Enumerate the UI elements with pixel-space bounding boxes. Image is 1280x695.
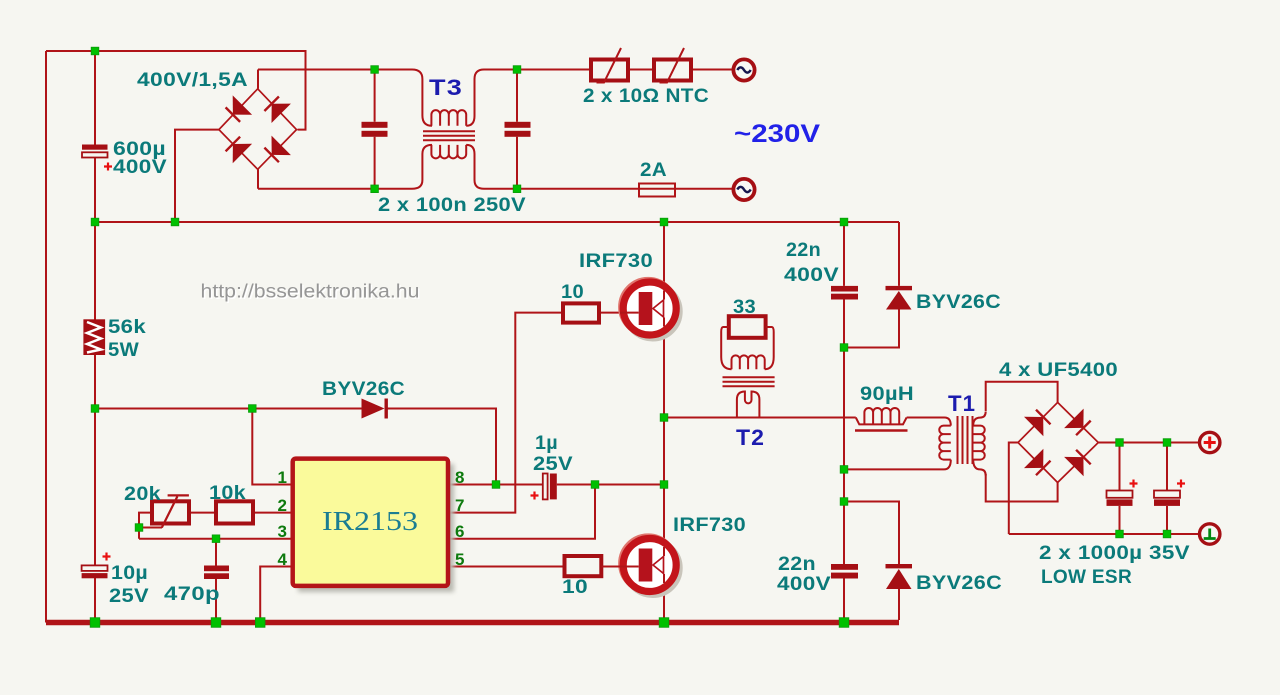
wire HV+ bus2 y=222 (95, 221, 899, 223)
svg-text:400V/1,5A: 400V/1,5A (137, 70, 248, 91)
resistor 10 top gate (563, 303, 599, 322)
svg-text:6: 6 (455, 522, 464, 541)
wire pin7 riser to top gate resistor (448, 313, 563, 513)
wire pin3 row (139, 538, 293, 540)
X capacitor 100n #2 (505, 122, 531, 137)
wire T1 secondary return to x=844 (844, 468, 944, 470)
wire pin1 (252, 409, 293, 485)
input bridge rectifier 400V/1.5A (219, 89, 297, 170)
svg-text:IRF730: IRF730 (579, 251, 653, 272)
wire lower snubber diode branch (844, 502, 899, 621)
svg-text:400V: 400V (113, 157, 167, 178)
junction gnd bus x844 (839, 618, 849, 628)
wire top gate resistor to MOSFET (599, 312, 620, 314)
wire T1 to output bridge top (986, 382, 1058, 411)
junction gnd bus x260 (255, 618, 265, 628)
junction vcc x95 (91, 405, 99, 413)
svg-text:10: 10 (562, 577, 588, 598)
X capacitor 100n #1 (362, 122, 388, 137)
wire half-bridge vertical x=664 (663, 222, 665, 623)
NTC thermistor 2 (654, 48, 691, 83)
wire output + rail (1098, 442, 1199, 444)
svg-text:10: 10 (561, 282, 584, 303)
junction snubber top return (840, 344, 848, 352)
wire trimmer wiper tie (139, 528, 162, 539)
svg-text:1µ: 1µ (535, 433, 558, 454)
junction out+ cap1 (1116, 439, 1124, 447)
junction out+ cap2 (1163, 439, 1171, 447)
output capacitor 1000u #1 (1107, 491, 1133, 506)
junction bus2 x95 (91, 218, 99, 226)
junction bus2 x844 (840, 218, 848, 226)
svg-text:400V: 400V (777, 574, 831, 595)
svg-text:2 x 1000µ 35V: 2 x 1000µ 35V (1039, 543, 1190, 564)
svg-text:10µ: 10µ (111, 563, 148, 584)
svg-text:BYV26C: BYV26C (916, 573, 1002, 594)
junction Xcap2 top (513, 66, 521, 74)
junction VS bootstrap (492, 481, 500, 489)
svg-text:470p: 470p (164, 584, 220, 605)
svg-text:2 x 100n 250V: 2 x 100n 250V (378, 195, 526, 216)
junction T1 return (840, 466, 848, 474)
capacitor 10u 25V (82, 565, 108, 578)
junction gnd bus x95 (90, 618, 100, 628)
wire pin5 to lower gate resistor (448, 566, 565, 568)
svg-text:LOW ESR: LOW ESR (1041, 567, 1132, 588)
svg-text:22n: 22n (786, 240, 821, 261)
capacitor 22n 400V bottom (831, 564, 858, 579)
wire output minus rail (1009, 443, 1199, 535)
ground bus (thick) (46, 620, 899, 626)
svg-text:8: 8 (455, 468, 464, 487)
wire 470p column (215, 539, 217, 621)
wire X-cap2 column x=517 (516, 70, 518, 189)
capacitor 600u 400V (82, 145, 108, 158)
terminal ground output (1200, 524, 1220, 544)
wire upper snubber diode branch x=899 (844, 222, 899, 348)
wire pin6 riser to VS row (448, 485, 595, 539)
svg-text:2A: 2A (640, 160, 667, 181)
svg-text:5: 5 (455, 550, 464, 569)
svg-text:T2: T2 (736, 425, 765, 450)
junction pin3 470p (212, 535, 220, 543)
wire T1 to output bridge bottom (986, 474, 1058, 502)
inductor 90uH (855, 408, 908, 431)
svg-text:5W: 5W (108, 340, 139, 361)
junction out- cap2 (1163, 530, 1171, 538)
output capacitor 1000u #2 (1154, 491, 1180, 506)
diode BYV26C bottom (886, 564, 913, 589)
wire lower gate resistor to MOSFET (601, 566, 620, 568)
wire pin4 to ground bus (260, 567, 293, 621)
NTC thermistor 1 (591, 48, 628, 83)
junction bus2 x175 (171, 218, 179, 226)
svg-text:10k: 10k (209, 483, 246, 504)
wire output cap stems (1120, 443, 1168, 535)
svg-text:IRF730: IRF730 (673, 515, 746, 536)
wire left tall rail (45, 51, 47, 623)
wire pin2 through 10k and 20k (139, 513, 293, 528)
wire input bridge bottom AC to T3, fuse row y=188.8 (258, 169, 734, 189)
IC IR2153 body (293, 459, 448, 586)
plus mark 600u (104, 163, 112, 171)
AC terminal N (733, 179, 754, 200)
svg-text:22n: 22n (778, 554, 816, 575)
junction trimmer tie (135, 524, 143, 532)
wire 90uH to T1 (907, 417, 945, 419)
AC terminal L (733, 59, 754, 80)
junction Xcap2 bottom (513, 185, 521, 193)
junction gnd bus x216 (211, 618, 221, 628)
svg-text:20k: 20k (124, 484, 161, 505)
junction VS pin6 (591, 481, 599, 489)
svg-text:2 x 10Ω NTC: 2 x 10Ω NTC (583, 86, 709, 107)
junction VS midpoint (660, 481, 668, 489)
capacitor 1u 25V (543, 474, 557, 500)
MOSFET IRF730 top (620, 281, 679, 339)
junction Xcap1 top (371, 66, 379, 74)
fuse 2A (639, 184, 675, 197)
junction bus2 x664 (660, 218, 668, 226)
wire 600u / 56k / 10u column at x=95 (94, 51, 96, 623)
plus mark 1u (531, 492, 539, 500)
svg-text:T3: T3 (429, 75, 463, 100)
svg-text:33: 33 (733, 297, 756, 318)
resistor 10k (216, 501, 253, 523)
svg-text:BYV26C: BYV26C (322, 379, 405, 400)
svg-text:7: 7 (455, 496, 464, 515)
svg-text:4 x UF5400: 4 x UF5400 (999, 360, 1118, 381)
resistor 10 bottom gate (565, 556, 602, 576)
wire VCC node y=408.5 and bootstrap diode run (95, 409, 496, 485)
wire top bus from left corner to input bridge + corner (46, 51, 306, 130)
IC IR2153 shadow (298, 464, 454, 592)
svg-text:~230V: ~230V (734, 120, 820, 148)
output bridge rectifier 4 x UF5400 (1018, 402, 1098, 482)
diode BYV26C bootstrap (362, 399, 388, 419)
wire X-cap1 column x=374.6 (374, 70, 376, 189)
junction vcc x252 (249, 405, 257, 413)
svg-text:1: 1 (278, 468, 287, 487)
capacitor 22n 400V top (831, 286, 858, 300)
svg-text:BYV26C: BYV26C (916, 292, 1001, 313)
junction Xcap1 bottom (371, 185, 379, 193)
junction midpoint T2 (660, 414, 668, 422)
junction 600u top (91, 47, 99, 55)
svg-text:http://bsselektronika.hu: http://bsselektronika.hu (201, 281, 420, 303)
svg-text:4: 4 (278, 550, 288, 569)
transformer T3 common-mode choke (412, 70, 484, 189)
capacitor 470p (204, 566, 229, 580)
plus mark cap1 (1130, 480, 1138, 488)
diode BYV26C top (886, 286, 913, 310)
MOSFET IRF730 bottom (601, 537, 679, 595)
junction snubber bottom branch (840, 498, 848, 506)
transformer T1 (939, 412, 985, 476)
wire input bridge top AC to T3 and NTC row y=69.5 (258, 70, 734, 89)
wire midpoint row to 90uH (664, 417, 856, 419)
wire input bridge minus corner to bus2 (175, 130, 219, 222)
plus mark cap2 (1177, 480, 1185, 488)
terminal plus output (1200, 432, 1220, 452)
resistor 56k 5W (83, 319, 105, 355)
plus mark 10u (103, 553, 111, 561)
svg-text:3: 3 (278, 522, 287, 541)
trimmer 20k (152, 495, 189, 527)
transformer T2 with 33 ohm resistor (721, 316, 774, 417)
svg-text:IR2153: IR2153 (322, 506, 418, 536)
wire VS row pin8 to midpoint (448, 484, 664, 486)
junction gnd bus x664 (659, 618, 669, 628)
svg-text:25V: 25V (533, 454, 573, 475)
svg-text:400V: 400V (784, 265, 839, 286)
svg-text:90µH: 90µH (860, 384, 914, 405)
svg-text:56k: 56k (108, 317, 146, 338)
junction out- cap1 (1116, 530, 1124, 538)
svg-text:25V: 25V (109, 586, 149, 607)
svg-text:T1: T1 (948, 391, 976, 416)
svg-text:2: 2 (278, 496, 287, 515)
wire x=844 column (22n caps, T1 return) (843, 222, 845, 623)
